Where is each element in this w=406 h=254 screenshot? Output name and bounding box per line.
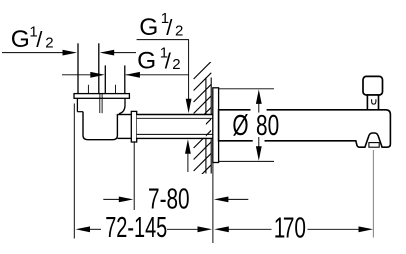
union center seam lines [99,98,101,119]
arrow at pipe top (points down) [186,99,192,114]
pipe thread inner bottom line [137,133,213,135]
inlet stub B left edge / extension line [104,65,106,93]
dim 7-80 right arrow (points left) [214,197,229,203]
dim 72-145 right arrow (points right) [198,226,213,232]
leader vertical to pipe (shared by wall-side G1/2 labels) [188,40,190,101]
svg-text:G: G [11,26,30,53]
dia80 up arrow [256,89,262,104]
pipe outer bottom line [137,137,213,139]
knob stem [367,95,378,110]
gap in spout bottom line at dimension arrow [253,139,265,142]
dia80 text [232,110,279,142]
label G1/2 top-left [11,23,54,53]
dia80 top extension line [219,88,274,90]
extension line wall face (shared) [212,163,214,243]
leader line of G1/2 top-left [2,52,64,54]
dim2 left tail [62,74,91,76]
pipe thread inner top line [137,117,213,119]
dia80 bottom extension line [219,160,274,162]
spout knob (diverter) [363,76,383,95]
arrow dim2 left (points right) [90,72,105,78]
arrow at pipe bottom (points up) [185,139,191,154]
inlet stub B right edge / extension line [124,65,126,93]
wall left surface line [205,78,207,174]
extension line fitting left (72-145 left) [73,104,75,239]
union saddle curve [83,113,117,116]
dia80 dim shaft lower [258,137,260,148]
svg-text:Ø: Ø [232,110,248,142]
aerator [369,143,379,148]
dia80 dim shaft upper [258,102,260,113]
wall hatching [194,61,212,182]
svg-text:170: 170 [274,212,306,244]
connection nut collar [131,111,136,142]
flange divider ticks [99,94,101,99]
label G1/2 top-middle [139,10,183,41]
dim 7-80 right tail [227,198,248,200]
extension line nut (7-80 left) [133,142,135,210]
dim 7-80 left arrow (points right) [119,197,134,203]
extension line spout outlet (gray) [372,150,374,238]
dim1 right tail [113,52,136,54]
elbow union flange plate [74,94,129,99]
union cup body [77,98,125,114]
elbow body [83,112,117,140]
dim 72-145 right tail [167,228,199,230]
leader underline G1/2 middle / dim2 right tail [126,74,189,76]
leader underline G1/2 top-middle [137,39,189,41]
dim 170 right arrow (points right) [359,226,374,232]
svg-text:2: 2 [45,35,53,52]
inlet stub A right edge / extension line [98,43,100,93]
gap in spout top line at dimension shaft [251,108,267,111]
spout body [219,110,391,147]
shaft below pipe arrow [187,152,189,172]
svg-text:7-80: 7-80 [148,183,190,215]
dim 72-145 left tail [88,228,101,230]
svg-text:80: 80 [256,110,279,142]
svg-text:G: G [137,48,156,75]
dim 170 left arrow (points left) [214,226,229,232]
dim 170 right tail [308,228,361,230]
dia80 down arrow [256,146,262,161]
hatch over pipe inside wall [194,96,212,160]
svg-text:/: / [165,49,172,74]
svg-text:2: 2 [172,56,180,73]
inlet stub A left edge / extension line [77,43,79,93]
svg-text:G: G [139,14,158,41]
dim 7-80 left tail [103,198,120,200]
inlet stub B centerline tick [115,85,117,94]
svg-text:72-145: 72-145 [105,213,167,244]
wall right surface line [210,78,212,174]
svg-text:2: 2 [175,23,183,40]
svg-text:/: / [166,15,173,40]
svg-text:/: / [36,27,43,52]
arrow dim2 right (points left) [125,72,139,78]
arrow dim1 right (points left) [100,50,115,56]
dim 170 left tail [227,228,272,230]
wall flange escutcheon [213,88,219,163]
threaded pipe to wall (white fill) [137,115,213,138]
inlet stub A centerline tick [87,85,89,94]
label G1/2 middle [137,44,180,74]
pipe segment elbow to nut [117,114,131,116]
arrow dim1 left (points right) [63,50,78,56]
dim 72-145 left arrow (points left) [76,226,91,232]
stem inner notch [372,99,376,104]
pipe outer top line [137,114,213,116]
